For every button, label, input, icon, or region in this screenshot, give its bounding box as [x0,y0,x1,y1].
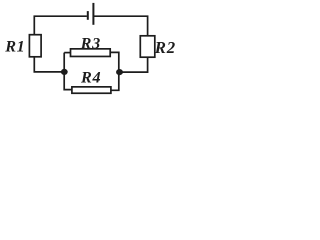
resistor R1 body [29,35,41,57]
svg-text:R1: R1 [4,38,25,56]
wire top right (battery positive to R2 top) [93,16,147,36]
wire right node to R2 bottom [119,57,148,72]
wire left branch vertical (R3 left lead to R4 left lead) [64,53,72,90]
wire R3 right lead [110,52,119,72]
wire R3 left lead [64,52,70,54]
battery positive plate (tall) [92,3,94,25]
wire R1 bottom to left node [34,57,64,72]
svg-text:R2: R2 [154,38,176,57]
svg-text:R3: R3 [80,35,101,53]
wire top left (battery negative to R1 top) [34,16,87,35]
svg-text:R4: R4 [80,69,101,87]
node junction left [61,69,68,75]
resistor R2 body [140,36,155,57]
battery negative plate (short) [87,11,89,20]
resistor R4 body [72,87,111,93]
node junction right [116,69,123,75]
resistor R3 body [71,49,111,57]
wire R4 right lead [111,72,119,90]
